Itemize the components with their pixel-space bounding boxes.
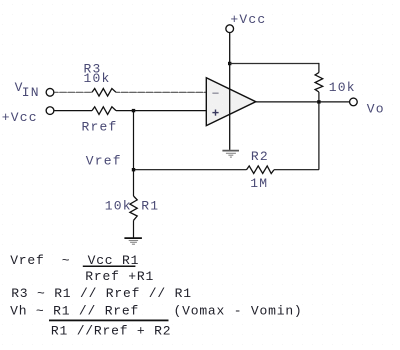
svg-text:10k: 10k <box>105 198 132 213</box>
svg-text:Vo: Vo <box>367 101 385 116</box>
terminal Vo <box>350 98 358 106</box>
resistor R3 <box>92 89 116 97</box>
wire op-amp output to Vo <box>256 101 349 103</box>
wire divider node down to Vref node <box>133 111 135 170</box>
svg-text:Vref: Vref <box>86 153 122 168</box>
wire Rref to op-amp non-inverting input <box>116 110 206 112</box>
terminal +Vcc left <box>46 107 54 115</box>
svg-text:10k: 10k <box>329 80 356 95</box>
svg-text:+Vcc: +Vcc <box>230 12 266 27</box>
junction at output node <box>317 100 320 103</box>
resistor R1 <box>130 196 137 220</box>
wire +Vcc rail to pull-up resistor (gray) <box>230 63 319 65</box>
resistor 10k pull-up <box>315 73 323 93</box>
junction at Vcc divider node <box>132 109 135 112</box>
wire R1 to ground <box>133 220 135 237</box>
ground below R1 <box>124 238 141 244</box>
svg-text:IN: IN <box>22 85 40 100</box>
ground below op-amp <box>222 151 239 158</box>
resistor Rref <box>92 107 116 115</box>
terminal +Vcc top <box>226 25 234 33</box>
junction at +Vcc rail <box>228 62 231 65</box>
svg-text:Vh ~ R1 // Rref (Vomax - Vo: Vh ~ R1 // Rref (Vomax - Vomin) <box>10 304 302 319</box>
op-amp U1 <box>206 78 256 126</box>
terminal VIN <box>46 88 54 96</box>
svg-text:R1 //Rref + R2: R1 //Rref + R2 <box>51 324 171 339</box>
wire R2 to Vref node <box>134 169 247 171</box>
wire Vref node down to R1 <box>133 170 135 196</box>
svg-text:+Vcc: +Vcc <box>2 110 38 125</box>
svg-text:R3 ~ R1 // Rref // R1: R3 ~ R1 // Rref // R1 <box>11 286 192 301</box>
wire VIN to R3 (dashed gray) <box>54 91 92 93</box>
svg-text:Rref: Rref <box>82 120 118 135</box>
wire feedback horizontal right segment <box>274 169 319 171</box>
svg-text:1M: 1M <box>250 176 268 191</box>
op-amp minus sign <box>212 92 218 94</box>
node Vref junction <box>132 168 135 171</box>
fraction bar line 4 <box>49 320 169 322</box>
wire output node down (feedback) <box>318 102 320 170</box>
svg-text:Rref +R1: Rref +R1 <box>85 269 154 284</box>
wire +Vcc top down through op-amp to ground <box>229 33 231 150</box>
svg-text:R1: R1 <box>141 198 159 213</box>
svg-text:R2: R2 <box>251 149 269 164</box>
resistor R2 <box>247 166 275 174</box>
wire R3 to op-amp inverting input (dashed gray) <box>116 91 206 93</box>
wire pull-up top stub <box>318 63 320 73</box>
svg-text:10k: 10k <box>84 71 111 86</box>
op-amp plus sign <box>212 110 218 116</box>
label VIN <box>15 80 40 100</box>
fraction bar line 1 <box>83 266 136 268</box>
wire +Vcc to Rref <box>54 110 92 112</box>
wire pull-up bottom stub <box>318 92 320 102</box>
